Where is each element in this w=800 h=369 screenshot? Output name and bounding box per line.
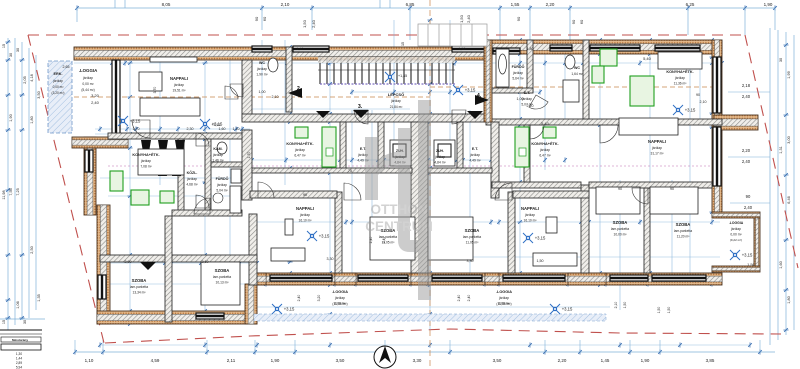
window bbox=[252, 46, 272, 52]
entrance arrow 4 bbox=[475, 95, 489, 105]
svg-text:3,50: 3,50 bbox=[37, 91, 41, 98]
interior wall bbox=[250, 191, 337, 198]
door swing bbox=[495, 183, 512, 200]
exterior wall bbox=[712, 266, 760, 272]
svg-text:15: 15 bbox=[2, 44, 6, 48]
kitchen fixture (green) bbox=[110, 171, 123, 191]
svg-text:járólap: járólap bbox=[674, 76, 685, 80]
level marker +3,15 bbox=[307, 231, 317, 241]
svg-text:1,10: 1,10 bbox=[233, 127, 240, 131]
furniture bbox=[139, 72, 162, 91]
svg-text:SZOBA: SZOBA bbox=[132, 278, 147, 283]
svg-text:7,25: 7,25 bbox=[16, 188, 20, 195]
svg-text:90: 90 bbox=[516, 16, 521, 21]
svg-text:8,05: 8,05 bbox=[162, 2, 171, 7]
svg-text:ERK.: ERK. bbox=[53, 72, 62, 76]
svg-text:2,40: 2,40 bbox=[742, 94, 751, 99]
svg-text:0,00 m²: 0,00 m² bbox=[82, 82, 94, 86]
svg-text:90: 90 bbox=[746, 194, 751, 199]
interior wall bbox=[508, 192, 515, 273]
svg-text:(10,56 m²): (10,56 m²) bbox=[496, 302, 511, 306]
svg-text:3,20: 3,20 bbox=[91, 93, 100, 98]
level marker +3,15 bbox=[200, 119, 210, 129]
furniture bbox=[496, 49, 509, 87]
interior wall bbox=[513, 191, 589, 198]
svg-text:CENTRUM: CENTRUM bbox=[365, 219, 433, 234]
svg-text:6,85: 6,85 bbox=[406, 2, 415, 7]
entrance arrow 3 bbox=[353, 110, 369, 118]
svg-text:FÜRDŐ: FÜRDŐ bbox=[512, 64, 525, 69]
svg-text:2,10: 2,10 bbox=[614, 302, 618, 309]
window bbox=[493, 48, 520, 54]
svg-text:1,64 m²: 1,64 m² bbox=[571, 72, 583, 76]
furniture bbox=[138, 149, 184, 175]
svg-text:+3,15: +3,15 bbox=[284, 307, 295, 312]
svg-text:1,50: 1,50 bbox=[623, 302, 627, 309]
kitchen fixture (green) bbox=[543, 127, 556, 138]
window bbox=[432, 275, 482, 281]
svg-text:járólap: járólap bbox=[52, 79, 63, 83]
door swing bbox=[344, 183, 361, 200]
svg-text:2,40: 2,40 bbox=[457, 295, 461, 302]
door swing bbox=[225, 86, 238, 99]
furniture bbox=[533, 253, 577, 266]
door swing bbox=[529, 95, 548, 109]
svg-text:15: 15 bbox=[401, 42, 405, 46]
svg-text:15: 15 bbox=[2, 320, 6, 324]
level marker +3,15 bbox=[385, 72, 395, 82]
svg-text:járólap: járólap bbox=[469, 153, 480, 157]
interior wall bbox=[242, 114, 492, 122]
door swing bbox=[721, 211, 723, 213]
svg-text:járólap: járólap bbox=[256, 67, 267, 71]
svg-text:3,00: 3,00 bbox=[787, 136, 791, 143]
svg-text:járólap: járólap bbox=[498, 296, 509, 300]
level marker +3,15 bbox=[118, 116, 128, 126]
svg-text:2,10: 2,10 bbox=[281, 2, 290, 7]
svg-text:6,47 m²: 6,47 m² bbox=[294, 154, 306, 158]
svg-text:13,34 m²: 13,34 m² bbox=[132, 291, 146, 295]
svg-text:5,04 m²: 5,04 m² bbox=[216, 189, 228, 193]
svg-text:járólap: járólap bbox=[186, 177, 197, 181]
window bbox=[196, 313, 224, 319]
svg-text:2,18: 2,18 bbox=[742, 83, 751, 88]
svg-text:19,51 m²: 19,51 m² bbox=[172, 89, 186, 93]
svg-text:2,89: 2,89 bbox=[16, 361, 22, 365]
svg-text:2,40: 2,40 bbox=[466, 14, 471, 23]
svg-text:1,40: 1,40 bbox=[297, 47, 304, 51]
svg-text:KAM.: KAM. bbox=[213, 147, 222, 151]
svg-text:(3,20 m²): (3,20 m²) bbox=[52, 91, 65, 95]
svg-text:11,20 m²: 11,20 m² bbox=[677, 235, 691, 239]
exterior wall bbox=[754, 218, 760, 266]
svg-text:21,84 m²: 21,84 m² bbox=[390, 105, 403, 109]
interior wall bbox=[486, 119, 722, 125]
interior wall bbox=[178, 139, 184, 214]
exterior wall bbox=[485, 273, 499, 285]
svg-text:4,68 m²: 4,68 m² bbox=[186, 183, 198, 187]
svg-text:járólap: járólap bbox=[524, 213, 535, 217]
ERK balcony bbox=[48, 61, 72, 133]
svg-text:3,30: 3,30 bbox=[327, 257, 334, 261]
interior wall bbox=[108, 133, 242, 139]
svg-text:lam.parketta: lam.parketta bbox=[611, 227, 629, 231]
interior wall bbox=[242, 60, 252, 120]
level marker +3,15 bbox=[453, 85, 463, 95]
svg-text:.LOGGIA: .LOGGIA bbox=[496, 290, 512, 294]
north arrow bbox=[374, 346, 396, 368]
svg-text:3,50: 3,50 bbox=[336, 358, 345, 363]
exterior wall bbox=[714, 115, 758, 130]
svg-text:1,70: 1,70 bbox=[247, 152, 251, 159]
door swing bbox=[258, 182, 274, 198]
tick clusters bbox=[110, 61, 114, 65]
interior wall bbox=[165, 216, 172, 322]
svg-text:járólap: járólap bbox=[294, 148, 305, 152]
svg-text:járólap: járólap bbox=[512, 71, 523, 75]
svg-text:2,40: 2,40 bbox=[369, 237, 373, 244]
furniture bbox=[140, 98, 200, 116]
interior wall bbox=[242, 130, 252, 200]
svg-text:1,80: 1,80 bbox=[527, 47, 534, 51]
svg-text:1,80: 1,80 bbox=[787, 296, 791, 303]
door swing bbox=[299, 272, 301, 274]
furniture bbox=[563, 80, 579, 102]
watermark logo Otthon Centrum bbox=[365, 100, 433, 300]
svg-text:2,40: 2,40 bbox=[311, 19, 316, 28]
interior wall bbox=[457, 122, 463, 170]
exterior wall bbox=[74, 47, 492, 60]
svg-text:10,13 m²: 10,13 m² bbox=[215, 281, 229, 285]
svg-text:16,10 m²: 16,10 m² bbox=[298, 219, 312, 223]
svg-text:2,10: 2,10 bbox=[272, 95, 279, 99]
svg-text:2,65: 2,65 bbox=[63, 65, 70, 69]
svg-text:(10,56 m²): (10,56 m²) bbox=[332, 302, 347, 306]
svg-text:lam.parketta: lam.parketta bbox=[213, 275, 231, 279]
svg-text:SZOBA: SZOBA bbox=[465, 228, 480, 233]
svg-text:E.T.: E.T. bbox=[472, 147, 478, 151]
exterior wall bbox=[484, 40, 492, 122]
svg-text:2,20: 2,20 bbox=[546, 2, 555, 7]
exterior wall bbox=[97, 311, 257, 324]
svg-text:KONYHA+ÉTK.: KONYHA+ÉTK. bbox=[666, 69, 693, 74]
exterior wall bbox=[712, 212, 760, 218]
svg-text:2,30: 2,30 bbox=[187, 127, 194, 131]
door swing bbox=[452, 110, 466, 124]
svg-text:0,00 m²: 0,00 m² bbox=[730, 233, 742, 237]
right dimension lines bbox=[769, 28, 771, 345]
kitchen fixture (green) bbox=[131, 190, 149, 205]
door swing bbox=[132, 120, 150, 138]
door swing bbox=[530, 125, 544, 139]
furniture bbox=[285, 219, 293, 235]
interior wall bbox=[378, 122, 384, 170]
svg-text:LÉPCSŐ: LÉPCSŐ bbox=[388, 92, 404, 97]
svg-text:1,70: 1,70 bbox=[133, 127, 140, 131]
exterior wall bbox=[72, 137, 128, 148]
svg-text:+3,15: +3,15 bbox=[685, 108, 696, 113]
interior wall bbox=[205, 139, 211, 214]
door swing bbox=[230, 84, 243, 97]
svg-text:7,55: 7,55 bbox=[9, 188, 13, 195]
furniture bbox=[231, 169, 241, 183]
svg-text:3,10: 3,10 bbox=[202, 260, 209, 264]
svg-text:1,60: 1,60 bbox=[779, 261, 783, 268]
furniture bbox=[546, 217, 557, 233]
kitchen fixture (green) bbox=[322, 127, 336, 167]
svg-text:2,40: 2,40 bbox=[467, 295, 471, 302]
interior wall bbox=[335, 192, 342, 273]
svg-text:1,50: 1,50 bbox=[537, 259, 544, 263]
window bbox=[270, 275, 332, 281]
svg-text:KONYHA+ÉTK.: KONYHA+ÉTK. bbox=[286, 141, 313, 146]
svg-text:WC: WC bbox=[574, 66, 580, 70]
dashed service lines bbox=[74, 96, 430, 98]
svg-text:SZOBA: SZOBA bbox=[613, 220, 628, 225]
door swing bbox=[196, 133, 209, 146]
svg-text:4,59: 4,59 bbox=[151, 358, 160, 363]
svg-text:KONYHA+ÉTK.: KONYHA+ÉTK. bbox=[531, 141, 558, 146]
svg-text:3.: 3. bbox=[358, 104, 363, 110]
svg-text:30: 30 bbox=[23, 320, 27, 324]
svg-text:Méretarány: Méretarány bbox=[12, 338, 28, 342]
window bbox=[610, 275, 648, 281]
door swing bbox=[632, 188, 648, 204]
furniture bbox=[370, 217, 415, 260]
svg-text:90: 90 bbox=[618, 187, 622, 191]
svg-text:11,05 m²: 11,05 m² bbox=[466, 241, 480, 245]
svg-text:6,47 m²: 6,47 m² bbox=[539, 154, 551, 158]
svg-text:járólap: járólap bbox=[390, 99, 401, 103]
furniture bbox=[434, 140, 455, 166]
window bbox=[112, 60, 120, 135]
svg-text:6,46: 6,46 bbox=[787, 196, 791, 203]
svg-text:2,10: 2,10 bbox=[527, 104, 534, 108]
exterior wall bbox=[97, 205, 110, 324]
exterior wall bbox=[712, 40, 722, 212]
furniture bbox=[596, 187, 640, 214]
furniture bbox=[619, 118, 678, 135]
window bbox=[590, 45, 640, 51]
svg-text:75: 75 bbox=[348, 169, 352, 173]
svg-text:1,50: 1,50 bbox=[459, 47, 466, 51]
svg-text:+3,15: +3,15 bbox=[562, 307, 573, 312]
svg-text:2,05: 2,05 bbox=[23, 76, 27, 83]
window bbox=[713, 127, 721, 186]
svg-text:2,50: 2,50 bbox=[30, 246, 34, 253]
svg-text:2,20: 2,20 bbox=[558, 358, 567, 363]
svg-text:járólap: járólap bbox=[539, 148, 550, 152]
svg-text:+3,15: +3,15 bbox=[319, 234, 330, 239]
interior wall bbox=[589, 182, 712, 188]
furniture bbox=[271, 248, 305, 261]
svg-text:lam.parketta: lam.parketta bbox=[674, 229, 692, 233]
level marker +3,15 bbox=[730, 250, 740, 260]
window bbox=[98, 275, 106, 299]
svg-text:3,70: 3,70 bbox=[153, 87, 157, 94]
svg-text:járólap: járólap bbox=[82, 76, 93, 80]
door swing bbox=[600, 125, 618, 143]
window bbox=[293, 46, 329, 52]
bottom dimension line bbox=[75, 351, 775, 353]
exterior wall bbox=[486, 40, 722, 54]
svg-text:0,00 m²: 0,00 m² bbox=[53, 85, 64, 89]
svg-text:90: 90 bbox=[571, 19, 576, 24]
furniture bbox=[390, 140, 411, 166]
svg-text:lam.parketta: lam.parketta bbox=[130, 285, 148, 289]
door swing bbox=[196, 195, 209, 208]
exterior wall bbox=[84, 137, 96, 215]
exterior wall bbox=[335, 273, 356, 285]
svg-text:1,46 m²: 1,46 m² bbox=[212, 159, 224, 163]
interior wall bbox=[286, 47, 292, 112]
exterior wall bbox=[568, 273, 606, 285]
svg-text:járólap: járólap bbox=[212, 153, 223, 157]
svg-text:(9,22 m²): (9,22 m²) bbox=[730, 238, 742, 242]
svg-text:+3,15: +3,15 bbox=[742, 253, 753, 258]
svg-text:4,18: 4,18 bbox=[30, 74, 34, 81]
interior wall bbox=[340, 122, 346, 170]
svg-text:5,40: 5,40 bbox=[643, 56, 652, 61]
svg-text:1,50: 1,50 bbox=[459, 14, 464, 23]
kitchen fixture (green) bbox=[515, 127, 529, 167]
kitchen fixture (green) bbox=[630, 76, 654, 106]
interior wall bbox=[172, 210, 242, 216]
svg-text:1,44: 1,44 bbox=[16, 357, 22, 361]
svg-text:E.T.: E.T. bbox=[524, 91, 530, 95]
svg-text:1,50: 1,50 bbox=[302, 19, 307, 28]
svg-text:3,30: 3,30 bbox=[413, 358, 422, 363]
interior wall bbox=[492, 182, 581, 188]
svg-text:.LOGGIA: .LOGGIA bbox=[79, 68, 98, 73]
upper floor outline box bbox=[418, 24, 487, 46]
svg-text:5,40: 5,40 bbox=[541, 121, 550, 126]
svg-text:2.: 2. bbox=[297, 86, 302, 92]
svg-text:.LOGGIA: .LOGGIA bbox=[729, 221, 744, 225]
interior wall bbox=[100, 255, 257, 262]
svg-text:járólap: járólap bbox=[140, 159, 151, 163]
interior wall bbox=[583, 40, 589, 119]
window bbox=[358, 275, 408, 281]
interior wall bbox=[492, 88, 533, 93]
svg-text:járólap: járólap bbox=[216, 183, 227, 187]
svg-text:+3,15: +3,15 bbox=[212, 122, 223, 127]
svg-text:1,99: 1,99 bbox=[787, 71, 791, 78]
entrance arrow 2 bbox=[288, 88, 302, 98]
svg-text:1,31: 1,31 bbox=[779, 146, 783, 153]
interior wall bbox=[211, 162, 242, 167]
svg-text:2,20: 2,20 bbox=[742, 148, 751, 153]
svg-text:1,50: 1,50 bbox=[657, 307, 661, 314]
svg-text:2,40: 2,40 bbox=[297, 295, 301, 302]
svg-text:1,80: 1,80 bbox=[30, 116, 34, 123]
interior wall bbox=[491, 122, 499, 198]
exterior wall bbox=[411, 273, 428, 285]
svg-text:90: 90 bbox=[254, 16, 259, 21]
interior wall bbox=[428, 168, 492, 173]
svg-text:4.: 4. bbox=[477, 93, 482, 99]
svg-text:4,84 m²: 4,84 m² bbox=[434, 161, 446, 165]
svg-text:1,35: 1,35 bbox=[37, 294, 41, 301]
level marker +3,15 bbox=[523, 233, 533, 243]
svg-text:1,50: 1,50 bbox=[667, 307, 671, 314]
svg-text:járólap: járólap bbox=[730, 227, 741, 231]
svg-text:1,55: 1,55 bbox=[511, 2, 520, 7]
svg-text:3,20: 3,20 bbox=[317, 295, 321, 302]
svg-text:1,00: 1,00 bbox=[259, 90, 266, 94]
interior wall bbox=[644, 188, 650, 273]
svg-text:60: 60 bbox=[262, 16, 267, 21]
interior wall bbox=[252, 168, 412, 173]
svg-text:WC: WC bbox=[259, 61, 265, 65]
svg-text:2,11: 2,11 bbox=[227, 358, 236, 363]
svg-text:90: 90 bbox=[303, 193, 307, 197]
furniture bbox=[428, 217, 473, 260]
furniture bbox=[230, 186, 241, 213]
kitchen fixture (green) bbox=[592, 66, 604, 83]
svg-text:2,40: 2,40 bbox=[744, 205, 753, 210]
svg-text:7,08 m²: 7,08 m² bbox=[140, 165, 152, 169]
left dimension lines bbox=[7, 38, 9, 330]
svg-text:NAPPALI: NAPPALI bbox=[170, 76, 188, 81]
staircase LEPCSO bbox=[318, 57, 455, 84]
exterior wall bbox=[245, 284, 257, 324]
furniture bbox=[650, 187, 698, 214]
window bbox=[655, 45, 700, 51]
window bbox=[452, 46, 487, 52]
svg-text:6,25: 6,25 bbox=[686, 2, 695, 7]
svg-text:1,10: 1,10 bbox=[85, 358, 94, 363]
window bbox=[550, 45, 572, 51]
window bbox=[652, 275, 706, 281]
svg-text:1,90: 1,90 bbox=[641, 358, 650, 363]
svg-text:3,30: 3,30 bbox=[467, 259, 474, 263]
interior wall bbox=[249, 214, 257, 285]
svg-text:(5,44 m²): (5,44 m²) bbox=[81, 88, 94, 92]
svg-text:NAPPALI: NAPPALI bbox=[521, 206, 539, 211]
svg-text:2,40: 2,40 bbox=[382, 237, 386, 244]
loggia bottom edge band bbox=[254, 314, 606, 321]
top dimension line bbox=[77, 7, 775, 9]
level marker +3,15 bbox=[550, 304, 560, 314]
svg-text:90: 90 bbox=[696, 93, 700, 97]
svg-text:2,90: 2,90 bbox=[125, 260, 132, 264]
svg-text:+1,45: +1,45 bbox=[398, 74, 407, 78]
svg-text:NAPPALI: NAPPALI bbox=[648, 139, 666, 144]
svg-text:+3,15: +3,15 bbox=[465, 88, 476, 93]
svg-text:FÜRDŐ: FÜRDŐ bbox=[216, 176, 229, 181]
svg-text:1,30: 1,30 bbox=[16, 352, 22, 356]
scale legend bbox=[0, 329, 42, 331]
svg-text:10,00 m²: 10,00 m² bbox=[613, 233, 627, 237]
svg-text:SZOBA: SZOBA bbox=[215, 268, 230, 273]
level marker +3,15 bbox=[673, 105, 683, 115]
interior wall bbox=[524, 125, 530, 182]
kitchen fixture (green) bbox=[160, 191, 174, 203]
svg-text:KÖZL.: KÖZL. bbox=[187, 170, 198, 175]
level marker +3,15 bbox=[272, 304, 282, 314]
svg-text:2,40: 2,40 bbox=[742, 159, 751, 164]
svg-text:4,49 m²: 4,49 m² bbox=[469, 159, 481, 163]
svg-text:.LOGGIA: .LOGGIA bbox=[332, 290, 348, 294]
window bbox=[85, 150, 93, 172]
furniture bbox=[658, 52, 702, 69]
door swing bbox=[194, 198, 210, 214]
kitchen fixture (green) bbox=[295, 127, 308, 138]
svg-text:1,90: 1,90 bbox=[9, 114, 13, 121]
svg-text:járólap: járólap bbox=[334, 296, 345, 300]
svg-text:KONYHA+ÉTK.: KONYHA+ÉTK. bbox=[132, 152, 159, 157]
